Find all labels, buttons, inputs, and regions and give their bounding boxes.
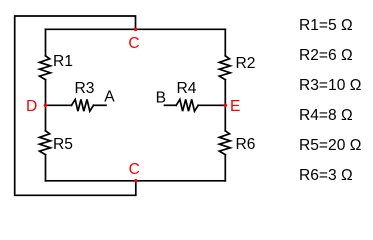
svg-text:R4: R4	[177, 80, 197, 97]
wire R4 to node E	[198, 104, 225, 106]
svg-text:D: D	[26, 98, 37, 115]
wire terminal B to R4	[165, 104, 177, 106]
svg-text:R2: R2	[236, 55, 256, 72]
wire node D to R3	[46, 104, 72, 106]
wire R3 to terminal A	[94, 104, 107, 106]
node D junction dot	[44, 104, 48, 108]
svg-text:R5=20 Ω: R5=20 Ω	[299, 137, 361, 154]
resistor R6	[219, 131, 230, 155]
svg-text:E: E	[230, 98, 240, 115]
wire R6 to bottom rail	[224, 155, 226, 181]
svg-text:R6=3 Ω: R6=3 Ω	[299, 167, 353, 184]
node C top junction dot	[134, 28, 138, 32]
wire R2 to R6 through node E	[224, 80, 226, 131]
resistor R1	[40, 56, 51, 80]
svg-text:C: C	[128, 35, 139, 52]
svg-text:C: C	[129, 161, 140, 178]
wire inner bottom rail	[46, 180, 226, 182]
wire R1 to R5 through node D	[45, 80, 47, 131]
node C bottom junction dot	[134, 179, 138, 183]
wire outer loop connecting node C top to node C bottom	[15, 16, 136, 195]
svg-text:R3=10 Ω: R3=10 Ω	[299, 77, 361, 94]
node E junction dot	[224, 104, 228, 108]
svg-text:R1=5 Ω: R1=5 Ω	[299, 17, 353, 34]
resistor R5	[40, 131, 51, 155]
resistor R2	[219, 56, 230, 80]
svg-text:R1: R1	[53, 53, 73, 70]
wire left branch top segment	[45, 29, 47, 56]
svg-text:R3: R3	[75, 80, 95, 97]
resistor R3	[72, 99, 94, 111]
svg-text:A: A	[104, 88, 115, 105]
svg-text:R4=8 Ω: R4=8 Ω	[299, 107, 353, 124]
svg-text:R2=6 Ω: R2=6 Ω	[299, 47, 353, 64]
svg-text:R5: R5	[53, 136, 73, 153]
resistor R4	[176, 99, 198, 111]
svg-text:B: B	[156, 89, 166, 106]
svg-text:R6: R6	[236, 136, 256, 153]
wire inner top rail	[46, 28, 226, 30]
wire right branch top segment	[224, 29, 226, 56]
wire R5 to bottom rail	[45, 155, 47, 181]
